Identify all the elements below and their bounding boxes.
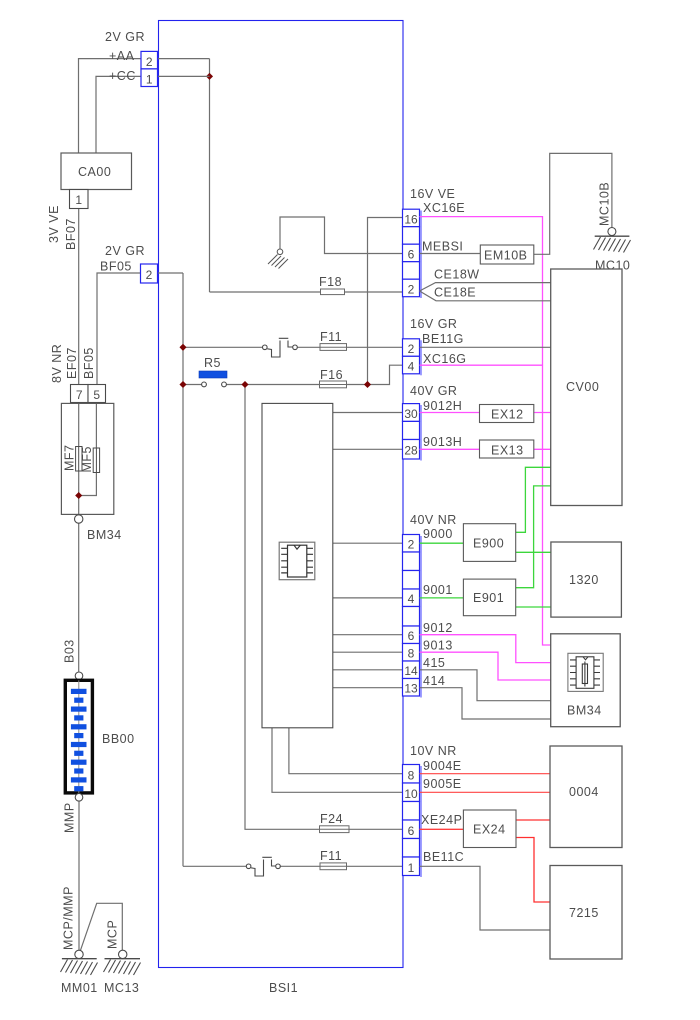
svg-text:EX12: EX12 xyxy=(491,408,524,422)
wire R5 row F16 xyxy=(183,365,403,384)
svg-text:+CC: +CC xyxy=(109,69,136,83)
svg-text:16: 16 xyxy=(404,213,418,227)
connector pin 2 CE18 xyxy=(403,279,420,297)
battery BB00 xyxy=(65,680,92,793)
svg-text:9000: 9000 xyxy=(423,527,453,541)
svg-text:9013H: 9013H xyxy=(423,435,462,449)
connector pin 6 MEBSI xyxy=(403,244,420,262)
wire MM01-MC13 link xyxy=(80,903,122,951)
splice EX13 xyxy=(480,440,534,458)
wire pin1 to junction xyxy=(158,75,210,77)
svg-text:1: 1 xyxy=(408,861,415,875)
battery terminal circle top xyxy=(75,672,83,680)
splice E901 xyxy=(463,579,515,616)
junction R5 row left xyxy=(179,381,186,388)
svg-text:EM10B: EM10B xyxy=(484,249,528,263)
connector empty box xyxy=(403,802,420,821)
wire CE18E fork xyxy=(420,291,551,301)
svg-text:BE11C: BE11C xyxy=(423,850,464,864)
fuse MF7 xyxy=(76,447,82,472)
svg-text:MMP: MMP xyxy=(63,802,77,833)
wire bottom F11 to pin 1 BE11C xyxy=(183,865,403,867)
pin box group D shadow xyxy=(420,536,422,698)
svg-text:MF5: MF5 xyxy=(80,446,94,473)
wire BM34 to battery xyxy=(78,524,80,672)
svg-text:6: 6 xyxy=(408,248,415,262)
svg-text:30: 30 xyxy=(404,407,418,421)
unit 7215 xyxy=(550,866,622,960)
connector pin 16 XC16E xyxy=(403,209,420,227)
pin box group E shadow xyxy=(420,766,422,877)
wire 9013H magenta to EX13 xyxy=(420,448,480,450)
connector pin 28 9013H xyxy=(403,440,420,460)
svg-text:8V NR: 8V NR xyxy=(50,344,64,383)
svg-text:9004E: 9004E xyxy=(423,759,462,773)
wire EM10B to MC10 ground xyxy=(534,153,612,254)
svg-text:MCP: MCP xyxy=(106,920,120,949)
ground MC13 xyxy=(104,950,141,975)
svg-text:MC10: MC10 xyxy=(595,259,630,273)
svg-text:6: 6 xyxy=(408,824,415,838)
svg-text:F18: F18 xyxy=(319,275,342,289)
CPU inner box xyxy=(262,403,333,727)
connector pin 13 414 xyxy=(403,679,420,697)
connector empty box xyxy=(403,262,420,280)
wire switch row to pin 2 BE11G xyxy=(183,346,403,348)
svg-text:+AA: +AA xyxy=(109,49,135,63)
switch contact lower (feed to BE11C) xyxy=(246,857,280,876)
wire MF7 through module xyxy=(78,403,80,515)
wire 9012 magenta to BM34 xyxy=(420,635,551,663)
wire E901 to 1320 green xyxy=(516,606,551,608)
wire CPU to pin 30 xyxy=(333,412,403,414)
wire net +CC from pin16 internal xyxy=(368,218,403,385)
unit BM34 right xyxy=(551,634,621,727)
connector pin 6 9012 xyxy=(403,626,420,644)
svg-text:14: 14 xyxy=(404,664,418,678)
wire BE11G to CV00 xyxy=(420,346,551,348)
svg-text:414: 414 xyxy=(423,674,445,688)
junction +CC node xyxy=(206,73,213,80)
connector circle BM34 xyxy=(75,515,83,523)
svg-text:40V NR: 40V NR xyxy=(410,513,457,527)
svg-text:XC16G: XC16G xyxy=(423,352,467,366)
BM34 fuse icon xyxy=(568,653,603,691)
svg-text:BSI1: BSI1 xyxy=(269,981,298,995)
svg-text:BB00: BB00 xyxy=(102,732,135,746)
svg-text:XC16E: XC16E xyxy=(423,201,465,215)
R5 contact circles xyxy=(202,382,227,387)
wire internal ground to pin 6 MEBSI xyxy=(280,217,403,254)
connector pin 8 9004E xyxy=(403,765,420,784)
wire CPU to pin 4 9001 xyxy=(333,597,403,599)
connector empty box xyxy=(403,421,420,439)
svg-text:415: 415 xyxy=(423,656,445,670)
svg-text:16V VE: 16V VE xyxy=(410,187,455,201)
svg-text:10V NR: 10V NR xyxy=(410,744,457,758)
svg-text:9013: 9013 xyxy=(423,639,453,653)
svg-text:BF05: BF05 xyxy=(100,260,132,274)
svg-text:7215: 7215 xyxy=(569,906,599,920)
fuse module BM34 left box xyxy=(61,403,113,514)
ground MC10 xyxy=(594,228,631,253)
svg-text:R5: R5 xyxy=(204,356,221,370)
connector pin 2 BE11G xyxy=(403,339,420,357)
svg-text:F11: F11 xyxy=(320,849,342,863)
svg-text:BM34: BM34 xyxy=(567,704,602,718)
wire F18 to pin 2 xyxy=(210,291,403,293)
wire F24 vertical feed xyxy=(245,385,403,830)
wire MF5 branch xyxy=(79,403,97,496)
svg-text:10: 10 xyxy=(404,787,418,801)
ground MM01 xyxy=(61,950,98,975)
fuse F24 xyxy=(320,826,350,833)
fuse F11 lower xyxy=(320,863,347,870)
wire 415 to BM34 xyxy=(420,670,551,701)
wire battery to MM01 ground xyxy=(78,801,80,950)
svg-text:CE18E: CE18E xyxy=(434,286,476,300)
svg-text:1: 1 xyxy=(146,73,153,87)
wire BF05 splice down xyxy=(182,273,184,866)
svg-text:6: 6 xyxy=(408,629,415,643)
wire 9005E red xyxy=(420,791,551,793)
wire EX12 to CV00 xyxy=(534,412,551,414)
connector pin 14 415 xyxy=(403,661,420,679)
svg-text:2: 2 xyxy=(408,538,415,552)
svg-text:MM01: MM01 xyxy=(61,981,98,995)
pin box group C shadow xyxy=(420,405,422,461)
svg-text:28: 28 xyxy=(404,444,418,458)
wire XE24P red to EX24 xyxy=(420,828,464,830)
svg-text:BF05: BF05 xyxy=(82,347,96,379)
wire 414 to BM34 xyxy=(420,688,551,719)
svg-text:F24: F24 xyxy=(320,812,343,826)
svg-text:2V GR: 2V GR xyxy=(105,30,145,44)
wire XC16G magenta xyxy=(420,364,543,366)
wire EX24 to 7215 red xyxy=(516,838,550,903)
connector pin 1 top xyxy=(141,69,158,87)
svg-text:CE18W: CE18W xyxy=(434,268,480,282)
wire CA00 pin1 down to MF7 xyxy=(78,209,80,403)
svg-text:1320: 1320 xyxy=(569,573,599,587)
svg-text:E900: E900 xyxy=(473,537,504,551)
connector pin 1 BE11C xyxy=(403,857,420,876)
svg-text:40V GR: 40V GR xyxy=(410,384,457,398)
svg-text:MC13: MC13 xyxy=(104,981,139,995)
wire BF05 right xyxy=(158,272,184,274)
wire CE18W fork xyxy=(420,283,551,291)
unit CV00 xyxy=(551,269,622,506)
wire CPU to pin 8 9013 xyxy=(333,651,403,653)
svg-text:1: 1 xyxy=(75,193,82,207)
junction switch row xyxy=(179,344,186,351)
fuse F11 upper xyxy=(320,344,347,351)
svg-text:MC10B: MC10B xyxy=(598,182,612,226)
svg-text:7: 7 xyxy=(76,388,83,402)
wire +AA xyxy=(79,59,142,153)
relay box EM10B xyxy=(480,245,534,264)
connector empty box xyxy=(403,607,420,627)
wire CPU to pin 28 xyxy=(333,448,403,450)
svg-text:XE24P: XE24P xyxy=(421,813,462,827)
wire E900 to 1320 green xyxy=(516,551,551,553)
svg-text:0004: 0004 xyxy=(569,785,599,799)
connector pin 1 CA00 xyxy=(70,190,89,209)
svg-text:2: 2 xyxy=(408,342,415,356)
fuse F16 xyxy=(320,381,347,388)
svg-text:MF7: MF7 xyxy=(63,445,77,472)
connector pin 8 9013 xyxy=(403,644,420,662)
connector empty box xyxy=(403,571,420,590)
svg-text:MCP/MMP: MCP/MMP xyxy=(62,886,76,950)
resistor R5 xyxy=(199,371,227,378)
wire XC16E magenta xyxy=(420,217,551,645)
wire F18 feed from +AA/+CC junction xyxy=(209,59,211,292)
connector pin 4 XC16G xyxy=(403,356,420,374)
switch contact upper (ignition feed) xyxy=(263,338,298,357)
splice E900 xyxy=(463,524,515,562)
connector empty box xyxy=(403,552,420,571)
wire BE11C to 7215 xyxy=(420,866,551,930)
svg-text:4: 4 xyxy=(408,360,415,374)
wire 9013 magenta to BM34 xyxy=(420,652,551,680)
svg-text:CA00: CA00 xyxy=(78,165,111,179)
wire CPU to pin 6 9012 xyxy=(333,634,403,636)
connector empty box xyxy=(403,227,420,245)
svg-text:9001: 9001 xyxy=(423,583,453,597)
wire EX24 to 0004 red xyxy=(516,819,550,821)
junction R5 row right xyxy=(241,381,248,388)
svg-text:E901: E901 xyxy=(473,591,504,605)
wire EX13 to CV00 xyxy=(534,448,551,450)
svg-text:16V GR: 16V GR xyxy=(410,317,457,331)
svg-text:8: 8 xyxy=(408,647,415,661)
connector pin 2 9000 xyxy=(403,535,420,553)
svg-text:EX24: EX24 xyxy=(473,823,506,837)
wire CPU to pin 10 9005E xyxy=(272,728,403,793)
unit CA00 xyxy=(61,153,132,190)
BSI1 unit outline xyxy=(159,21,404,968)
svg-text:F16: F16 xyxy=(320,368,343,382)
svg-text:9005E: 9005E xyxy=(423,777,462,791)
wire 9012H magenta to EX12 xyxy=(420,412,480,414)
op-amp U1 chip icon xyxy=(279,542,315,580)
svg-text:4: 4 xyxy=(408,592,415,606)
svg-text:2: 2 xyxy=(408,283,415,297)
wire +CC xyxy=(96,76,141,153)
pin box group B shadow xyxy=(420,340,422,375)
svg-text:2: 2 xyxy=(146,268,153,282)
wire 9001 green xyxy=(420,597,464,599)
wire CPU to pin 8 9004E xyxy=(289,728,403,774)
connector pin 2 BF05 xyxy=(141,264,158,283)
junction MF5/MF7 xyxy=(75,492,82,499)
connector pin 5 xyxy=(88,385,106,403)
battery terminal circle bottom xyxy=(75,794,83,802)
fuse MF5 xyxy=(93,448,99,473)
connector pin 2 top xyxy=(141,51,158,69)
ground internal BSI xyxy=(268,249,288,269)
svg-text:2: 2 xyxy=(146,55,153,69)
svg-text:EX13: EX13 xyxy=(491,444,524,458)
svg-text:3V VE: 3V VE xyxy=(47,205,61,243)
svg-text:MEBSI: MEBSI xyxy=(422,240,463,254)
wire BF05 left to MF5 xyxy=(97,273,141,403)
svg-text:9012: 9012 xyxy=(423,621,453,635)
connector empty box xyxy=(403,839,420,858)
wire MEBSI to EM10B xyxy=(420,253,481,255)
unit 1320 xyxy=(551,542,622,617)
splice EX12 xyxy=(480,405,534,423)
connector pin 30 9012H xyxy=(403,404,420,422)
fuse F18 xyxy=(321,289,345,295)
connector pin 4 9001 xyxy=(403,589,420,607)
svg-text:9012H: 9012H xyxy=(423,399,462,413)
svg-text:CV00: CV00 xyxy=(566,380,599,394)
pin box group A shadow xyxy=(420,211,422,299)
svg-text:EF07: EF07 xyxy=(65,347,79,379)
svg-text:BF07: BF07 xyxy=(64,218,78,250)
wire pin2 to junction xyxy=(158,58,210,60)
connector pin 6 XE24P xyxy=(403,820,420,839)
svg-text:13: 13 xyxy=(404,682,418,696)
svg-text:F11: F11 xyxy=(320,330,342,344)
svg-text:5: 5 xyxy=(93,388,100,402)
svg-text:8: 8 xyxy=(408,769,415,783)
svg-text:B03: B03 xyxy=(63,639,77,663)
wire CPU to pin 14 415 xyxy=(333,669,403,671)
svg-text:BE11G: BE11G xyxy=(422,332,464,346)
connector pin 7 xyxy=(71,385,89,403)
connector pin 10 9005E xyxy=(403,783,420,802)
splice EX24 xyxy=(463,810,516,848)
wire E901 to CV00 green xyxy=(516,486,551,588)
svg-text:2V GR: 2V GR xyxy=(105,244,145,258)
unit 0004 xyxy=(550,746,622,848)
wire CPU to pin 13 414 xyxy=(333,687,403,689)
svg-text:BM34: BM34 xyxy=(87,528,122,542)
wire 9004E red xyxy=(420,773,551,775)
junction F16 pin16 net xyxy=(364,381,371,388)
wire 9000 green xyxy=(420,542,464,544)
wire E900 to CV00 green xyxy=(516,467,551,532)
wire CPU to pin 2 9000 xyxy=(333,542,403,544)
